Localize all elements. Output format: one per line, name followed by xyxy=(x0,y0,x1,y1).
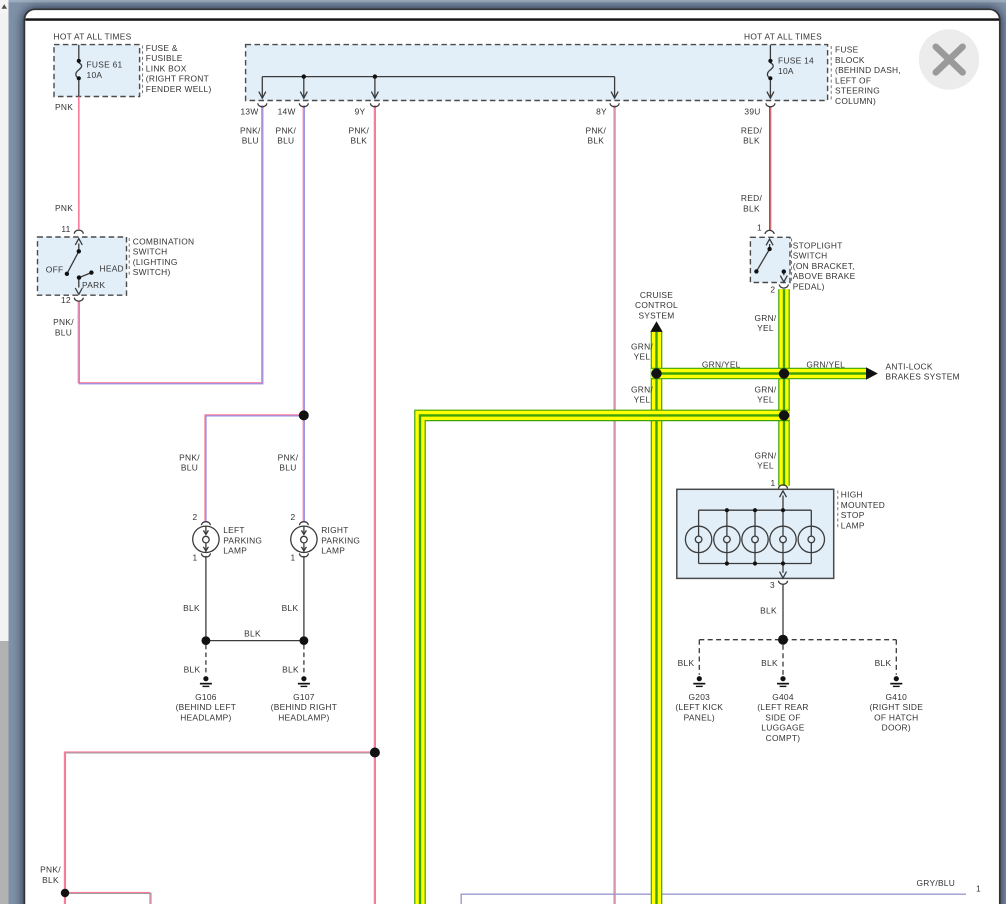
svg-text:PNK/: PNK/ xyxy=(278,452,299,462)
svg-text:DOOR): DOOR) xyxy=(882,723,911,733)
svg-text:LAMP: LAMP xyxy=(223,546,247,556)
svg-text:SWITCH: SWITCH xyxy=(133,247,168,257)
GRN/YEL highlighted wire: horizontal to anti-lock brakes xyxy=(651,368,866,380)
svg-text:RED/: RED/ xyxy=(741,193,763,203)
close button xyxy=(919,29,979,89)
stoplight switch box (dashed) xyxy=(750,237,790,282)
GRN/YEL highlighted wire: horizontal y=415 with corner down at x=420 xyxy=(420,415,790,904)
svg-text:BLK: BLK xyxy=(282,665,299,675)
right parking lamp pin2 arc xyxy=(299,522,308,526)
GRN/YEL highlighted wire: stoplight pin2 down to high mounted stop lamp xyxy=(778,289,790,485)
svg-text:(RIGHT SIDE: (RIGHT SIDE xyxy=(869,702,923,712)
svg-text:(LIGHTING: (LIGHTING xyxy=(133,257,178,267)
svg-text:PNK: PNK xyxy=(55,203,73,213)
svg-text:YEL: YEL xyxy=(757,461,774,471)
svg-text:BLU: BLU xyxy=(181,463,198,473)
svg-text:BLU: BLU xyxy=(279,463,296,473)
junction dot lamp ground left xyxy=(202,636,211,645)
svg-text:OFF: OFF xyxy=(46,265,64,275)
svg-text:GRN/: GRN/ xyxy=(754,450,776,460)
label bracket stoplight switch xyxy=(791,239,793,284)
label bracket high mounted stop lamp xyxy=(837,491,839,530)
svg-text:G404: G404 xyxy=(772,692,794,702)
page top rule xyxy=(25,18,999,21)
high mounted stop lamp box xyxy=(677,489,834,578)
svg-text:PNK/: PNK/ xyxy=(40,865,61,875)
svg-text:PNK/: PNK/ xyxy=(275,125,296,135)
fuse block internal bus xyxy=(262,76,614,78)
left parking lamp bulb xyxy=(193,526,219,552)
fuse F14 element xyxy=(769,45,771,59)
svg-text:G410: G410 xyxy=(885,692,907,702)
svg-text:PANEL): PANEL) xyxy=(684,712,715,722)
svg-text:BLU: BLU xyxy=(242,136,259,146)
svg-text:LAMP: LAMP xyxy=(841,520,865,530)
junction GRN/YEL at stoplight vertical y373 xyxy=(779,368,789,378)
component junction dots xyxy=(65,59,786,566)
svg-text:FENDER WELL): FENDER WELL) xyxy=(146,84,212,94)
wire BLK dashed drop G106 xyxy=(205,645,207,675)
svg-text:2: 2 xyxy=(193,512,198,522)
connector arc 8Y xyxy=(610,103,619,107)
junction dot 14W branch xyxy=(299,410,309,420)
svg-text:COLUMN): COLUMN) xyxy=(835,96,876,106)
svg-text:FUSIBLE: FUSIBLE xyxy=(146,53,183,63)
svg-text:PARK: PARK xyxy=(82,280,105,290)
wire PNK/BLK branch left at y=752 xyxy=(64,752,374,904)
left parking lamp pin2 arc xyxy=(201,522,210,526)
svg-text:HIGH: HIGH xyxy=(841,490,863,500)
ground symbol G107 xyxy=(298,676,310,687)
high lamp BLK wire down xyxy=(782,585,784,636)
svg-text:(BEHIND DASH,: (BEHIND DASH, xyxy=(835,65,901,75)
wire BLK dashed drop G107 xyxy=(303,645,305,675)
svg-text:(LEFT KICK: (LEFT KICK xyxy=(675,702,723,712)
svg-text:2: 2 xyxy=(770,285,775,295)
svg-text:BLU: BLU xyxy=(55,328,72,338)
svg-text:3: 3 xyxy=(770,580,775,590)
right parking lamp bulb xyxy=(291,526,317,552)
svg-text:PNK/: PNK/ xyxy=(348,125,369,135)
svg-text:YEL: YEL xyxy=(757,395,774,405)
svg-text:SYSTEM: SYSTEM xyxy=(638,310,674,320)
dashed ground bus under high lamp xyxy=(699,639,896,641)
svg-text:BLK: BLK xyxy=(875,658,892,668)
svg-text:FUSE 61: FUSE 61 xyxy=(87,60,123,70)
svg-text:14W: 14W xyxy=(278,107,296,117)
svg-text:BLK: BLK xyxy=(350,136,367,146)
svg-text:12: 12 xyxy=(61,295,71,305)
stoplight switch: pin2 arc xyxy=(779,285,788,289)
wire PNK/BLK branch right at y=893 xyxy=(64,892,150,904)
combination switch internals xyxy=(75,239,82,245)
svg-text:BLK: BLK xyxy=(678,658,695,668)
svg-text:G203: G203 xyxy=(688,692,710,702)
junction dot lamp ground right xyxy=(300,636,309,645)
wire PNK fuse61 to combination switch pin 11 xyxy=(78,97,80,230)
svg-text:PEDAL): PEDAL) xyxy=(793,282,825,292)
connector arc 14W xyxy=(299,103,308,107)
svg-text:FUSE &: FUSE & xyxy=(146,43,178,53)
svg-text:OF HATCH: OF HATCH xyxy=(874,712,918,722)
high lamp bulb 5 xyxy=(798,526,824,552)
svg-text:CONTROL: CONTROL xyxy=(635,300,678,310)
bus exit arrows 13W 14W 9Y 8Y xyxy=(259,92,266,99)
GRN/YEL highlighted wire: cruise control vertical xyxy=(651,332,663,904)
svg-text:PNK: PNK xyxy=(55,102,73,112)
combination switch box (dashed) xyxy=(38,237,127,295)
svg-text:GRN/YEL: GRN/YEL xyxy=(806,360,845,370)
fuse & fusible link box (dashed) xyxy=(54,45,140,97)
svg-text:11: 11 xyxy=(61,224,70,234)
combination switch: pin11 arc xyxy=(74,230,83,234)
svg-text:BLK: BLK xyxy=(244,628,261,638)
svg-text:LUGGAGE: LUGGAGE xyxy=(761,723,805,733)
svg-text:HOT AT ALL TIMES: HOT AT ALL TIMES xyxy=(54,32,132,42)
stoplight switch: pin1 arc xyxy=(765,230,774,234)
svg-text:BRAKES SYSTEM: BRAKES SYSTEM xyxy=(886,372,960,382)
wire BLK left lamp to ground junction xyxy=(205,556,207,637)
svg-text:BLK: BLK xyxy=(743,136,760,146)
ground symbol G203 xyxy=(693,676,705,687)
svg-text:10A: 10A xyxy=(778,66,794,76)
stoplight switch internals xyxy=(766,239,773,245)
svg-text:LEFT OF: LEFT OF xyxy=(835,75,871,85)
label bracket combination switch xyxy=(128,238,130,277)
wire RED/BLK fuse14 to stoplight switch xyxy=(769,107,771,230)
fuse block box (dashed) xyxy=(246,45,828,101)
wire PNK/BLU branch to left parking lamp xyxy=(205,415,304,522)
svg-text:G107: G107 xyxy=(293,692,315,702)
svg-text:BLK: BLK xyxy=(184,665,201,675)
svg-text:SWITCH: SWITCH xyxy=(793,251,828,261)
svg-text:(BEHIND RIGHT: (BEHIND RIGHT xyxy=(271,702,337,712)
svg-text:13W: 13W xyxy=(240,107,258,117)
svg-text:RIGHT: RIGHT xyxy=(321,525,348,535)
right parking lamp pin1 arc xyxy=(299,553,308,557)
svg-text:YEL: YEL xyxy=(634,352,651,362)
svg-text:SWITCH): SWITCH) xyxy=(133,267,171,277)
label bracket F61 xyxy=(142,46,144,97)
junction GRN/YEL at stoplight vertical y415 xyxy=(779,410,789,420)
scrollbar thumb xyxy=(0,641,9,904)
ground symbol G404 xyxy=(777,676,789,687)
scrollbar track xyxy=(0,13,9,641)
wire BLK dashed drop G410 xyxy=(895,640,897,675)
svg-text:YEL: YEL xyxy=(757,323,774,333)
svg-text:PNK/: PNK/ xyxy=(585,125,606,135)
svg-text:GRY/BLU: GRY/BLU xyxy=(917,878,956,888)
svg-text:STEERING: STEERING xyxy=(835,86,880,96)
svg-text:PNK/: PNK/ xyxy=(179,452,200,462)
wire BLK joining lamp grounds xyxy=(206,640,304,642)
svg-text:(LEFT REAR: (LEFT REAR xyxy=(757,702,809,712)
svg-text:8Y: 8Y xyxy=(596,107,607,117)
high lamp bulb 4 xyxy=(770,526,796,552)
combination switch: pin12 arc xyxy=(74,298,83,302)
wire PNK/BLU 14W trunk xyxy=(302,105,304,415)
svg-text:BLK: BLK xyxy=(183,603,200,613)
svg-text:GRN/: GRN/ xyxy=(754,384,776,394)
junction dot 9Y branch y752 xyxy=(370,748,380,758)
svg-text:BLK: BLK xyxy=(282,603,299,613)
wire BLK right lamp to ground junction xyxy=(303,556,305,637)
svg-text:MOUNTED: MOUNTED xyxy=(841,500,885,510)
left parking lamp pin1 arc xyxy=(201,553,210,557)
svg-text:2: 2 xyxy=(291,512,296,522)
connector arc 13W xyxy=(258,103,267,107)
arrow to cruise control system xyxy=(650,321,662,332)
svg-text:1: 1 xyxy=(757,223,762,233)
svg-text:39U: 39U xyxy=(744,107,760,117)
svg-text:BLOCK: BLOCK xyxy=(835,55,865,65)
wire BLK dashed drop G404 xyxy=(782,645,784,675)
svg-text:PARKING: PARKING xyxy=(223,535,262,545)
svg-text:G106: G106 xyxy=(195,692,217,702)
svg-text:HOT AT ALL TIMES: HOT AT ALL TIMES xyxy=(744,32,822,42)
svg-text:BLK: BLK xyxy=(761,658,778,668)
high lamp pin1 arc xyxy=(779,485,788,489)
connector arc 9Y xyxy=(370,103,379,107)
high lamp bulb 3 xyxy=(742,526,768,552)
svg-text:HEADLAMP): HEADLAMP) xyxy=(278,712,329,722)
svg-text:10A: 10A xyxy=(87,70,103,80)
svg-text:FUSE: FUSE xyxy=(835,45,859,55)
wire PNK/BLU branch to right parking lamp xyxy=(302,415,304,521)
ground symbol G106 xyxy=(200,676,212,687)
high lamp pin3 arc xyxy=(779,581,788,585)
ground symbol G410 xyxy=(890,676,902,687)
arrow to anti-lock brakes system xyxy=(866,367,878,380)
high lamp bulb 2 xyxy=(714,526,740,552)
svg-text:LINK BOX: LINK BOX xyxy=(146,63,187,73)
svg-text:HEAD: HEAD xyxy=(100,263,124,273)
svg-text:GRN/: GRN/ xyxy=(631,384,653,394)
svg-text:BLU: BLU xyxy=(277,136,294,146)
wire PNK/BLU combination switch pin12 to fuse block 13W xyxy=(78,105,262,382)
svg-text:1: 1 xyxy=(771,478,776,488)
connector arc 39U xyxy=(766,103,775,107)
svg-text:PARKING: PARKING xyxy=(321,535,360,545)
svg-text:GRN/: GRN/ xyxy=(754,313,776,323)
svg-text:BLK: BLK xyxy=(743,203,760,213)
svg-text:PNK/: PNK/ xyxy=(53,317,74,327)
high lamp internals: entry arrow and buses xyxy=(780,491,787,497)
svg-text:COMBINATION: COMBINATION xyxy=(133,236,195,246)
svg-text:LEFT: LEFT xyxy=(223,525,245,535)
wire BLK dashed drop G203 xyxy=(698,640,700,675)
svg-text:STOPLIGHT: STOPLIGHT xyxy=(793,240,843,250)
svg-text:COMPT): COMPT) xyxy=(766,733,801,743)
svg-text:YEL: YEL xyxy=(634,395,651,405)
svg-text:ABOVE BRAKE: ABOVE BRAKE xyxy=(793,271,856,281)
svg-text:FUSE 14: FUSE 14 xyxy=(778,56,814,66)
DARK LINEWORK xyxy=(67,45,811,636)
svg-text:ANTI-LOCK: ANTI-LOCK xyxy=(886,361,933,371)
high lamp bulb 1 xyxy=(685,526,711,552)
svg-text:LAMP: LAMP xyxy=(321,546,345,556)
svg-text:HEADLAMP): HEADLAMP) xyxy=(180,712,231,722)
svg-text:GRN/YEL: GRN/YEL xyxy=(702,360,741,370)
svg-text:1: 1 xyxy=(976,884,981,894)
wire PNK/BLK 9Y trunk xyxy=(373,105,375,904)
fuse F61 element xyxy=(78,45,80,59)
svg-text:BLK: BLK xyxy=(42,875,59,885)
svg-text:1: 1 xyxy=(291,553,296,563)
wire PNK/BLK 8Y trunk xyxy=(613,105,615,904)
svg-text:SIDE OF: SIDE OF xyxy=(765,712,800,722)
svg-text:GRN/: GRN/ xyxy=(631,341,653,351)
wire GRY/BLU bottom xyxy=(461,894,966,904)
svg-text:RED/: RED/ xyxy=(741,125,763,135)
junction dot high lamp ground bus xyxy=(778,635,788,645)
junction dot PNK/BLK y893 xyxy=(61,889,69,897)
fuse14 exit arrow xyxy=(767,92,774,99)
svg-text:(ON BRACKET,: (ON BRACKET, xyxy=(793,261,855,271)
svg-text:1: 1 xyxy=(193,553,198,563)
junction GRN/YEL at cruise vertical xyxy=(651,368,661,378)
svg-text:(BEHIND LEFT: (BEHIND LEFT xyxy=(176,702,237,712)
svg-text:BLK: BLK xyxy=(587,136,604,146)
svg-text:9Y: 9Y xyxy=(355,107,366,117)
svg-text:CRUISE: CRUISE xyxy=(640,290,673,300)
scrollbar up arrow button xyxy=(0,0,9,13)
svg-text:BLK: BLK xyxy=(760,606,777,616)
svg-text:STOP: STOP xyxy=(841,510,865,520)
svg-text:(RIGHT FRONT: (RIGHT FRONT xyxy=(146,74,209,84)
label bracket fuse block xyxy=(830,46,832,100)
svg-text:PNK/: PNK/ xyxy=(240,125,261,135)
